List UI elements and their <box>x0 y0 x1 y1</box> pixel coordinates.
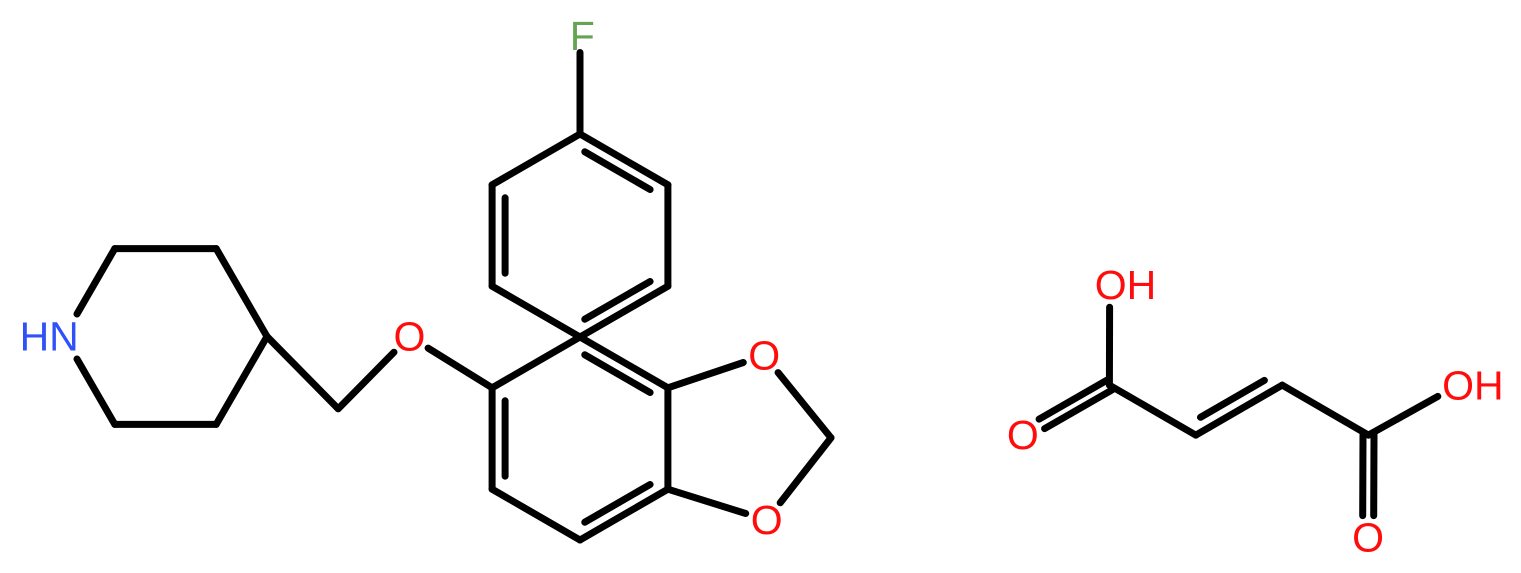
fumaric acid C2=C3 double bond <box>1196 380 1282 435</box>
fumaric acid C3-C4 bond <box>1282 385 1368 435</box>
fumaric acid C1=O double bond <box>1039 380 1112 428</box>
fumaric acid C4=O double bond <box>1363 435 1374 515</box>
svg-text:F: F <box>570 13 595 59</box>
svg-text:O: O <box>1007 412 1039 458</box>
methylenedioxy (dioxole) ring bonds O-CH2-O <box>668 363 831 514</box>
atom label O (fumaric left carbonyl) <box>1007 412 1039 458</box>
fluorophenyl benzene ring (aromatic, kekule double bonds) <box>492 134 668 337</box>
benzodioxole benzene ring (aromatic, kekule double bonds) <box>492 337 668 540</box>
atom label O (dioxole upper) <box>748 333 780 379</box>
svg-text:HN: HN <box>20 314 79 360</box>
bond linker CH2 to ether O <box>338 352 394 409</box>
fumaric acid C1-C2 bond <box>1109 385 1195 435</box>
svg-text:OH: OH <box>1442 363 1504 409</box>
svg-text:O: O <box>751 497 783 543</box>
piperidine ring <box>77 249 267 425</box>
fumaric acid C4 to O-H bond <box>1369 396 1438 435</box>
atom label N-H of piperidine <box>20 314 79 360</box>
bond aryl C to F <box>577 53 584 135</box>
atom label O (dioxole lower) <box>751 497 783 543</box>
bond ether O to benzodioxole C6 <box>428 348 492 388</box>
svg-text:O: O <box>393 314 425 360</box>
atom label O (fumaric right carbonyl) <box>1352 515 1384 561</box>
atom label OH (fumaric left carboxyl) <box>1095 262 1157 308</box>
svg-text:O: O <box>1352 515 1384 561</box>
bond piperidine C4 to linker CH2 <box>267 337 338 409</box>
atom label F (fluorine) <box>570 13 595 59</box>
atom label OH (fumaric right carboxyl) <box>1442 363 1504 409</box>
atom label O (aryl ether) <box>393 314 425 360</box>
svg-text:OH: OH <box>1095 262 1157 308</box>
svg-text:O: O <box>748 333 780 379</box>
fumaric acid O-H to C1 bond <box>1106 307 1113 385</box>
